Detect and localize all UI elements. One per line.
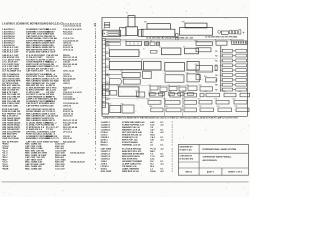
svg-text:SHEET 1 OF 2: SHEET 1 OF 2 <box>228 172 243 174</box>
svg-text:Q5: Q5 <box>187 84 189 86</box>
svg-text:7: 7 <box>95 105 97 107</box>
sheet bottom rule <box>2 181 249 183</box>
svg-text:U16: U16 <box>121 103 124 105</box>
svg-text:INTERNATIONAL GAME SYSTEM: INTERNATIONAL GAME SYSTEM <box>203 148 237 151</box>
svg-text:R63: R63 <box>183 98 186 100</box>
IC U13 large <box>118 87 139 96</box>
svg-text:U10: U10 <box>122 78 125 80</box>
svg-text:TERMINAL LUG #6: TERMINAL LUG #6 <box>122 144 141 147</box>
resistor R30 <box>196 42 213 45</box>
svg-text:R71: R71 <box>215 98 218 100</box>
svg-text:U4: U4 <box>108 60 110 62</box>
svg-text:Q4: Q4 <box>178 85 180 87</box>
svg-text:J4: J4 <box>108 77 110 79</box>
svg-text:U18,19: U18,19 <box>63 83 70 85</box>
svg-text:5: 5 <box>95 138 97 140</box>
svg-text:E2-C1,PC-75: E2-C1,PC-75 <box>46 138 60 140</box>
svg-text:R.TECHNO IPA: R.TECHNO IPA <box>180 157 194 160</box>
svg-text:C31,33,35: C31,33,35 <box>63 34 73 36</box>
column separators bottom band <box>165 92 183 116</box>
resistor R41 <box>206 78 217 82</box>
svg-text:U10E 5101 RAM: U10E 5101 RAM <box>2 137 19 140</box>
IC U18 <box>196 48 211 52</box>
IC U14 <box>196 66 213 73</box>
svg-text:C7 C8 CR5 CR6 F1 F2 TP3 TP4 GN: C7 C8 CR5 CR6 F1 F2 TP3 TP4 GND <box>205 36 238 39</box>
svg-text:HS1: HS1 <box>144 21 147 23</box>
svg-text:+: + <box>103 32 105 36</box>
svg-text:CAP TANT 2.2UF: CAP TANT 2.2UF <box>26 70 44 73</box>
svg-text:LP1,2,3,4: LP1,2,3,4 <box>63 130 73 133</box>
svg-text:1A 3AG: 1A 3AG <box>46 104 54 107</box>
transformer T1 <box>126 16 138 36</box>
svg-text:T1: T1 <box>126 13 128 15</box>
capacitor C3 small vertical can <box>119 28 126 36</box>
svg-text:5%, 1/2W: 5%, 1/2W <box>46 71 56 73</box>
svg-text:CW-24,25,26,24: CW-24,25,26,24 <box>70 161 85 164</box>
svg-text:A-2: A-2 <box>161 155 164 158</box>
svg-text:U9: U9 <box>142 70 144 72</box>
svg-text:U12: U12 <box>186 72 189 74</box>
IC U3 <box>185 48 199 54</box>
svg-text:CR1-8,10: CR1-8,10 <box>63 138 73 140</box>
svg-text:R74: R74 <box>217 106 220 108</box>
svg-text:DESIGNED BY: DESIGNED BY <box>180 147 194 149</box>
resistor R42 <box>200 87 213 91</box>
svg-text:R6: R6 <box>215 75 217 77</box>
svg-text:E-1: E-1 <box>161 145 164 147</box>
capacitor C12 <box>110 91 117 96</box>
svg-text:CAP DIPPED 100PF: CAP DIPPED 100PF <box>26 104 47 107</box>
svg-text:U15: U15 <box>108 104 111 106</box>
svg-text:J2: J2 <box>125 40 127 42</box>
title block: drawing title <box>203 156 233 162</box>
resistor R40 <box>196 75 201 80</box>
small parts right of HS1 <box>176 34 179 40</box>
capacitor C11 <box>103 90 110 95</box>
vertical bus rail <box>220 46 222 92</box>
svg-text:3: 3 <box>95 52 97 54</box>
svg-text:R70: R70 <box>198 98 201 100</box>
svg-text:U14: U14 <box>195 64 198 66</box>
IC U7 <box>187 61 199 70</box>
svg-text:C3: C3 <box>122 27 124 29</box>
title block frame <box>178 144 248 175</box>
capacitor C13 <box>215 65 217 71</box>
svg-text:S1: S1 <box>230 39 232 41</box>
svg-text:U17: U17 <box>135 90 138 92</box>
svg-text:CAPACITOR C1 THRU C15 RESISTO: CAPACITOR C1 THRU C15 RESISTOR R1 THRU R… <box>103 117 239 120</box>
svg-text:IC QUAD AND GATE: IC QUAD AND GATE <box>26 51 48 54</box>
svg-text:T-3 1/4 W: T-3 1/4 W <box>46 51 56 54</box>
resistor ladder R1-R28 right side <box>222 49 246 91</box>
small caps top left C4 C5 <box>104 22 110 27</box>
IC U1 <box>109 50 139 57</box>
IC U8 <box>122 72 140 77</box>
svg-text:R41: R41 <box>204 76 207 78</box>
svg-text:1A: 1A <box>150 144 153 147</box>
svg-text:A-2: A-2 <box>161 170 164 173</box>
svg-text:CL7 GLOBAR V14: CL7 GLOBAR V14 <box>2 70 22 73</box>
svg-text:C41,42,44,45: C41,42,44,45 <box>63 98 76 101</box>
svg-text:R62: R62 <box>164 98 167 100</box>
fastener list rows (bottom center) <box>101 121 174 173</box>
IC U6 <box>165 63 185 72</box>
IC U11 <box>165 75 184 82</box>
svg-text:ASSY/DESIGN: ASSY/DESIGN <box>203 159 218 162</box>
svg-text:1: 1 <box>95 155 97 157</box>
heatsink assembly HS1 <box>142 24 175 37</box>
svg-text:CR15,16: CR15,16 <box>63 105 72 107</box>
svg-text:R1: R1 <box>215 51 217 53</box>
capacitor C2 arrows below C1 <box>104 39 120 46</box>
svg-text:U11: U11 <box>164 73 167 75</box>
IC U4 <box>109 61 141 69</box>
resistor ladder labels <box>215 50 234 91</box>
svg-text:R5: R5 <box>215 70 217 72</box>
svg-text:+: + <box>243 31 245 35</box>
svg-text:R10E 22K 1/4W: R10E 22K 1/4W <box>2 104 19 107</box>
horizontal trace lines <box>106 59 218 99</box>
svg-text:C31.6 16V: C31.6 16V <box>55 168 65 170</box>
svg-text:R61E-4: R61E-4 <box>101 144 109 147</box>
parts list body rows <box>2 28 97 170</box>
title block: designed by cell <box>180 147 194 152</box>
svg-text:R66: R66 <box>183 106 186 108</box>
svg-text:CR5: CR5 <box>148 91 151 93</box>
svg-text:U1,2,3,6: U1,2,3,6 <box>63 66 72 68</box>
parts list header row <box>2 22 97 27</box>
svg-text:R2: R2 <box>215 56 217 58</box>
svg-text:REV A: REV A <box>186 171 193 174</box>
scan speckle noise <box>1 3 249 195</box>
IC U9 <box>143 71 152 78</box>
relay K1 cluster <box>145 42 160 46</box>
svg-text:C9: C9 <box>141 60 143 62</box>
IC U2 <box>161 48 181 55</box>
svg-text:1.5,6,7,8,9,10,15-18: 1.5,6,7,8,9,10,15-18 <box>63 26 82 28</box>
svg-text:CR7: CR7 <box>183 91 186 93</box>
IC U15 <box>110 105 121 112</box>
svg-text:A-2: A-2 <box>161 139 164 142</box>
connector J2 <box>126 41 142 45</box>
svg-text:U8: U8 <box>121 71 123 73</box>
capacitor C1 block with polarity mark <box>103 30 121 36</box>
svg-text:R.SANT Y.ALI: R.SANT Y.ALI <box>180 149 193 152</box>
svg-text:C5 C6 CR1 CR2 CR3 CR4 Q5 TP1 T: C5 C6 CR1 CR2 CR3 CR4 Q5 TP1 TP2 GND +5V… <box>146 37 194 40</box>
svg-text:*R22K: *R22K <box>2 168 9 170</box>
svg-text:A-2: A-2 <box>161 124 164 127</box>
svg-text:CR6: CR6 <box>168 91 171 93</box>
svg-text:2: 2 <box>95 144 97 146</box>
svg-text:R9: R9 <box>215 90 217 92</box>
svg-text:U13: U13 <box>117 85 120 87</box>
capacitor C6 beside T1 <box>139 30 144 37</box>
component designator labels <box>101 13 242 109</box>
svg-text:A-2: A-2 <box>161 163 164 166</box>
svg-text:1: 1 <box>172 171 174 173</box>
svg-text:SUPERSTAR WARS PINBALL: SUPERSTAR WARS PINBALL <box>203 156 233 159</box>
IC U12 <box>187 74 199 82</box>
PCB board outline <box>102 17 248 116</box>
svg-text:CR11,12,14: CR11,12,14 <box>63 70 75 73</box>
IC U5 <box>144 61 162 70</box>
svg-text:J5: J5 <box>143 49 145 51</box>
svg-text:R64: R64 <box>149 106 152 108</box>
svg-text:R3: R3 <box>215 61 217 63</box>
svg-text:R30: R30 <box>195 40 198 42</box>
svg-text:2: 2 <box>95 150 97 152</box>
svg-text:R65: R65 <box>165 106 168 108</box>
svg-text:R72: R72 <box>233 98 236 100</box>
svg-text:R73: R73 <box>199 106 202 108</box>
svg-text:22GA: 22GA <box>150 170 156 173</box>
title block: checked by cell <box>180 155 194 160</box>
edge connector J1 (left board edge) <box>102 39 105 108</box>
svg-text:5: 5 <box>95 159 97 161</box>
svg-text:7: 7 <box>95 168 97 170</box>
svg-text:1.A1079K3-1 SCHEMATIC MOTHER: 1.A1079K3-1 SCHEMATIC MOTHER BOARD BD-2,… <box>2 22 64 25</box>
transistor row Q1-Q4 <box>150 86 197 92</box>
svg-text:R75: R75 <box>235 106 238 108</box>
svg-text:U3: U3 <box>183 47 185 49</box>
svg-text:R7: R7 <box>215 80 217 82</box>
svg-text:A-2: A-2 <box>161 131 164 134</box>
svg-text:K1: K1 <box>150 40 152 42</box>
svg-text:WIRE BUS 22 GA: WIRE BUS 22 GA <box>122 170 139 173</box>
signal arrow to U8 <box>106 74 122 76</box>
resistor grid rows <box>148 93 250 112</box>
svg-text:R68: R68 <box>223 91 226 93</box>
horizontal bus traces <box>106 40 244 41</box>
fuse F1 and small hardware top right <box>218 30 245 35</box>
svg-text:U11,12,14: U11,12,14 <box>63 115 73 118</box>
svg-text:R42: R42 <box>199 85 202 87</box>
svg-text:W1E JUMP: W1E JUMP <box>101 171 112 173</box>
svg-text:Q1: Q1 <box>149 84 151 86</box>
svg-text:R61: R61 <box>147 98 150 100</box>
connector J4 with pointed end <box>109 78 122 84</box>
svg-text:R8: R8 <box>215 85 217 87</box>
svg-text:1: 1 <box>172 145 174 147</box>
IC U10 <box>123 79 140 84</box>
capacitor C10 <box>103 85 110 90</box>
heatsink assembly HS2 <box>180 23 213 35</box>
svg-text:HS2: HS2 <box>182 21 185 23</box>
svg-text:U2: U2 <box>159 46 161 48</box>
svg-text:RES. CARB 22K: RES. CARB 22K <box>25 167 42 170</box>
svg-text:CHECKED BY: CHECKED BY <box>180 155 193 157</box>
svg-text:Q3: Q3 <box>168 85 170 87</box>
svg-text:R69: R69 <box>239 91 242 93</box>
svg-text:R41,42,44-48: R41,42,44-48 <box>63 140 76 143</box>
svg-text:U1: U1 <box>108 48 110 50</box>
dip switch S1 <box>232 41 248 44</box>
connector pin arrows <box>106 41 110 100</box>
svg-text:A-2: A-2 <box>161 148 164 151</box>
svg-text:C3E-81.4-3 CAP: C3E-81.4-3 CAP <box>2 51 19 54</box>
svg-text:U7,8,10,12: U7,8,10,12 <box>63 49 74 51</box>
diode row CR1-CR4 <box>149 93 194 96</box>
svg-text:R4: R4 <box>215 64 217 67</box>
svg-text:R67: R67 <box>205 91 208 93</box>
connector J3 <box>216 41 227 45</box>
svg-text:74: 74 <box>94 25 97 28</box>
capacitor C14 tall <box>102 103 109 114</box>
label plate <box>151 50 158 53</box>
svg-text:Q2: Q2 <box>159 85 161 87</box>
IC U17 <box>137 92 145 97</box>
svg-text:2: 2 <box>95 164 97 166</box>
IC U16 <box>122 105 134 113</box>
svg-text:C14: C14 <box>101 101 104 103</box>
svg-text:1: 1 <box>95 71 97 73</box>
